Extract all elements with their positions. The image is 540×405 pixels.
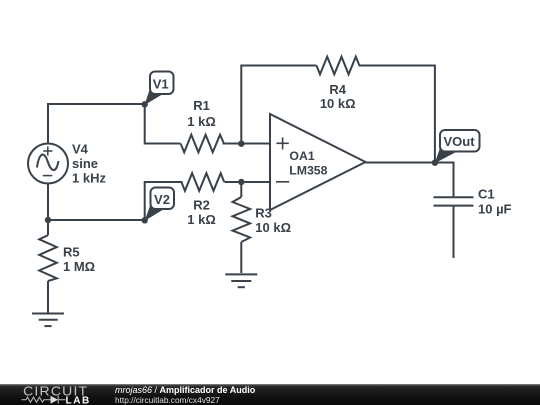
svg-text:R1: R1 [193,98,210,113]
svg-text:1 kHz: 1 kHz [72,171,106,186]
wire V4 bottom to bottom rail [47,184,49,236]
footer credit line 2 [115,396,220,405]
flag V2 [145,188,175,222]
node + input junction dot [238,141,244,147]
svg-text:V1: V1 [153,76,169,91]
wire bottom rail to V2 node [48,219,145,221]
resistor R2 [181,173,224,191]
svg-text:1 kΩ: 1 kΩ [187,212,216,227]
wire R1 right to op-amp + input [223,143,271,145]
footer credit line 1 [115,386,255,396]
svg-text:1 MΩ: 1 MΩ [63,259,95,274]
svg-text:10 kΩ: 10 kΩ [255,220,291,235]
ground below R5 [32,314,64,327]
wire feedback left vertical and top rail left [241,66,316,144]
resistor R4 [317,57,361,75]
svg-text:V2: V2 [154,192,170,207]
resistor R3 [233,197,251,242]
svg-text:R3: R3 [255,206,272,221]
node - input junction dot [238,179,244,185]
node bottom-rail left junction dot [45,217,51,223]
op-amp OA1 body [270,114,366,210]
svg-text:VOut: VOut [443,134,475,149]
svg-text:10 µF: 10 µF [478,202,512,217]
capacitor C1 [434,197,474,205]
svg-text:sine: sine [72,156,98,171]
svg-text:LAB: LAB [66,395,91,405]
wire - node down to R3 [240,182,242,197]
node V1 junction dot [142,101,148,107]
footer bar [0,384,540,405]
wire V2 vertical to R2 left [145,182,183,221]
wire R2 right to op-amp - input [225,181,271,183]
wire R5 bottom to ground [47,281,49,313]
voltage source V4 [28,144,68,184]
wire C1 bottom stub [453,206,455,258]
resistor R5 [39,235,57,281]
svg-text:V4: V4 [72,142,89,157]
svg-text:10 kΩ: 10 kΩ [320,96,356,111]
svg-text:R5: R5 [63,245,80,260]
ground below R3 [225,274,257,287]
svg-text:R4: R4 [329,82,346,97]
svg-text:R2: R2 [193,198,210,213]
wire op-amp output to C1 elbow [366,163,454,198]
node bottom-rail right junction dot [142,217,148,223]
resistor R1 [181,135,224,153]
wire top rail right and feedback right vertical [361,66,435,163]
CircuitLab logo [0,384,110,405]
svg-text:OA1: OA1 [289,149,314,163]
wire V1 node down to R1 left [145,104,181,144]
label OA1 name [289,149,327,177]
svg-text:LM358: LM358 [289,164,327,178]
flag VOut [435,130,480,163]
svg-text:1 kΩ: 1 kΩ [187,114,216,129]
wire R3 bottom to ground [240,242,242,273]
wire top-left rail from V4 top to V1 node [48,104,145,144]
node VOut junction dot [432,160,438,166]
flag V1 [145,72,174,106]
svg-text:C1: C1 [478,187,495,202]
